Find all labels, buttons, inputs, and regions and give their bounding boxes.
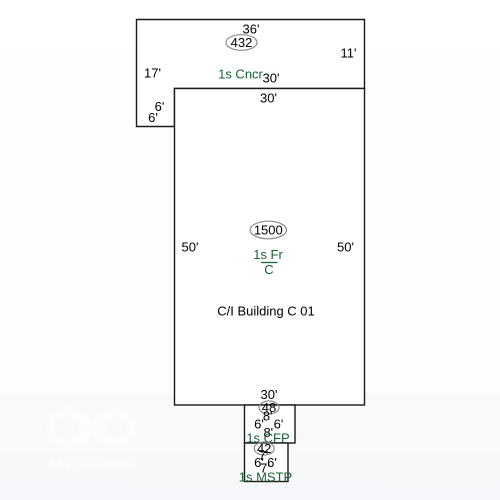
svg-text:50': 50' <box>182 240 199 255</box>
svg-text:11': 11' <box>341 46 357 61</box>
svg-text:6': 6' <box>148 110 158 125</box>
area oval 432 <box>226 35 257 51</box>
svg-text:50': 50' <box>337 240 354 255</box>
svg-text:MLS GRID: MLS GRID <box>50 456 136 473</box>
fraction line <box>261 262 278 264</box>
main building rectangle (C/I Building C 01) <box>175 89 365 406</box>
svg-text:1s Cncr: 1s Cncr <box>218 67 263 82</box>
svg-text:8': 8' <box>263 408 273 423</box>
top L-shape addition outline (1s Cncr) <box>137 20 365 127</box>
svg-text:432: 432 <box>231 35 253 50</box>
watermark logo right ring <box>103 414 132 443</box>
svg-text:30': 30' <box>263 71 280 86</box>
watermark logo left ring <box>51 412 84 445</box>
svg-text:6': 6' <box>254 417 264 432</box>
svg-text:C: C <box>264 262 273 277</box>
svg-text:17': 17' <box>144 66 161 81</box>
area oval 48 <box>259 401 279 414</box>
area oval 42 <box>254 442 274 455</box>
CFP rectangle <box>245 405 296 443</box>
area oval 1500 <box>250 221 286 239</box>
svg-text:1500: 1500 <box>254 223 283 238</box>
svg-text:1s Fr: 1s Fr <box>253 247 283 262</box>
svg-text:1s MSTP: 1s MSTP <box>239 470 292 485</box>
svg-text:C/I Building C 01: C/I Building C 01 <box>217 304 315 319</box>
svg-text:6': 6' <box>274 417 284 432</box>
MSTP rectangle <box>245 443 289 482</box>
watermark logo center link <box>83 414 101 444</box>
svg-text:30': 30' <box>260 91 277 106</box>
